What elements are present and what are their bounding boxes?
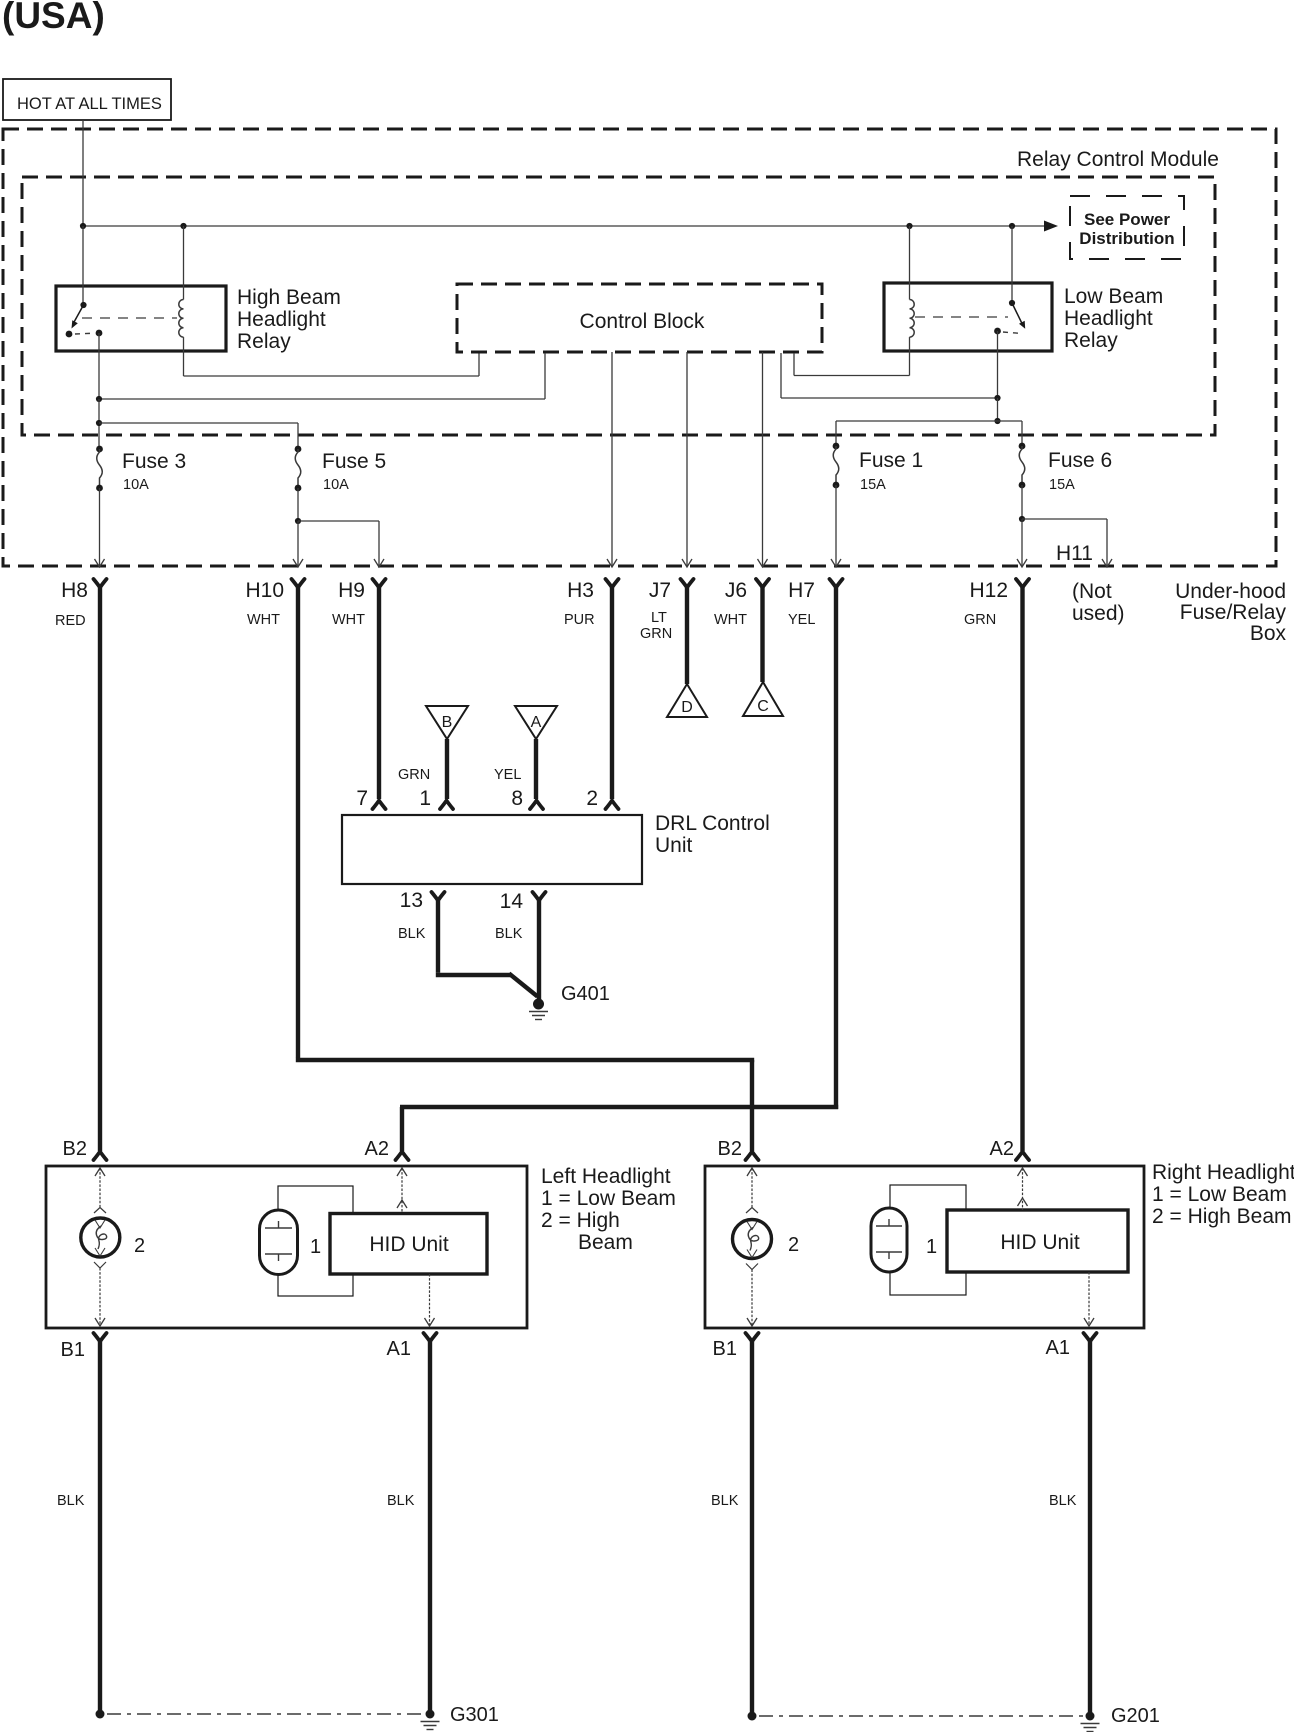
connector DRL pin1 terminal bbox=[440, 801, 453, 810]
arrow into J7 bbox=[682, 559, 692, 567]
svg-text:High Beam: High Beam bbox=[237, 286, 341, 309]
svg-text:WHT: WHT bbox=[714, 612, 747, 628]
connector D (triangle) bbox=[667, 684, 707, 717]
wire fuse3 to H8 bbox=[99, 488, 101, 566]
wire connector B to DRL pin 1 bbox=[445, 739, 449, 799]
wire control block to J7 bbox=[686, 352, 688, 566]
svg-text:Headlight: Headlight bbox=[237, 308, 326, 331]
svg-text:A2: A2 bbox=[365, 1138, 389, 1160]
connector H3 terminal bbox=[606, 579, 619, 588]
wire fuse5 down bbox=[297, 488, 299, 521]
svg-text:A: A bbox=[531, 714, 542, 731]
see power distribution box bbox=[1070, 196, 1184, 259]
arrow into H8 bbox=[95, 559, 105, 567]
wire power rail bbox=[83, 225, 1046, 227]
svg-text:D: D bbox=[681, 699, 693, 716]
connector left B2 terminal bbox=[94, 1152, 107, 1161]
wire fuse1 to H7 bbox=[835, 485, 837, 566]
fuse F1 15A bbox=[833, 443, 840, 450]
svg-text:Headlight: Headlight bbox=[1064, 307, 1153, 330]
ground G201 bbox=[1086, 1712, 1095, 1721]
svg-text:Left Headlight: Left Headlight bbox=[541, 1165, 671, 1188]
svg-text:(USA): (USA) bbox=[2, 0, 105, 36]
connector DRL pin7 terminal bbox=[373, 801, 386, 810]
wire rail to high-beam coil bbox=[183, 226, 185, 300]
wire rail to low-beam switch bbox=[1011, 226, 1013, 303]
svg-text:Fuse 6: Fuse 6 bbox=[1048, 449, 1112, 472]
wire left A2 to HID unit bbox=[397, 1168, 407, 1176]
node right B1 ground splice bbox=[748, 1712, 757, 1721]
HID unit right box bbox=[947, 1210, 1128, 1272]
svg-text:See Power: See Power bbox=[1084, 210, 1170, 229]
svg-text:PUR: PUR bbox=[564, 612, 595, 628]
connector left A2 terminal bbox=[396, 1152, 409, 1161]
fuse F3 10A bbox=[96, 446, 103, 453]
under-hood fuse/relay box (outer dashed) bbox=[3, 129, 1276, 566]
right bulb2 filament bbox=[747, 1222, 757, 1230]
svg-text:H12: H12 bbox=[969, 579, 1008, 602]
connector H9 terminal bbox=[373, 579, 386, 588]
wire rail to low-beam coil bbox=[909, 226, 911, 300]
connector H8 terminal bbox=[94, 579, 107, 588]
wire H12 GRN to right headlight A2 bbox=[1020, 585, 1024, 1151]
svg-text:8: 8 bbox=[511, 787, 523, 810]
wire G201 ground link bbox=[759, 1715, 1083, 1717]
svg-text:G201: G201 bbox=[1111, 1705, 1160, 1727]
svg-text:Beam: Beam bbox=[578, 1231, 633, 1254]
svg-text:Fuse 1: Fuse 1 bbox=[859, 449, 923, 472]
wire right A1 BLK to G201 bbox=[1088, 1339, 1092, 1714]
arrow into H12 bbox=[1017, 559, 1027, 567]
svg-text:LT: LT bbox=[651, 610, 667, 626]
fuse F5 10A bbox=[295, 446, 302, 453]
connector A (triangle) bbox=[515, 706, 557, 739]
svg-text:YEL: YEL bbox=[494, 767, 521, 783]
connector DRL pin13 terminal bbox=[432, 892, 445, 901]
HID unit left box bbox=[330, 1214, 487, 1275]
high-beam switch output contact bbox=[96, 330, 103, 337]
svg-text:H10: H10 bbox=[245, 579, 284, 602]
svg-text:(Not: (Not bbox=[1072, 580, 1112, 603]
connector DRL pin14 terminal bbox=[533, 892, 546, 901]
low beam bulb right (1) bbox=[871, 1208, 907, 1272]
left bulb2 filament bbox=[95, 1220, 105, 1228]
low-beam relay switch arm bbox=[1012, 303, 1022, 324]
ground G401 bbox=[533, 999, 544, 1010]
connector H12 terminal bbox=[1016, 579, 1029, 588]
fuse F6 15A bbox=[1019, 443, 1026, 450]
wire rail down to fuse 6 bbox=[1021, 421, 1023, 446]
svg-text:Fuse/Relay: Fuse/Relay bbox=[1180, 601, 1287, 624]
svg-text:Fuse 5: Fuse 5 bbox=[322, 450, 386, 473]
connector left A1 terminal bbox=[424, 1333, 437, 1342]
left headlight box bbox=[46, 1166, 527, 1328]
node low-beam switch wire junction bbox=[994, 395, 1000, 401]
right low-beam bulb bracket bbox=[890, 1185, 966, 1295]
svg-text:B: B bbox=[442, 714, 453, 731]
svg-text:G401: G401 bbox=[561, 983, 610, 1005]
wire fuse6 down bbox=[1021, 485, 1023, 519]
svg-text:H9: H9 bbox=[338, 579, 365, 602]
connector right A2 terminal bbox=[1016, 1152, 1029, 1161]
svg-text:7: 7 bbox=[356, 787, 368, 810]
connector DRL pin2 terminal bbox=[606, 801, 619, 810]
wire junction down to fuse3 branch bbox=[98, 399, 100, 449]
svg-text:1: 1 bbox=[926, 1236, 937, 1258]
svg-text:H11: H11 bbox=[1056, 542, 1093, 565]
wire junction to fuse rail bbox=[997, 398, 999, 421]
relay control module box (inner dashed) bbox=[22, 177, 1215, 435]
arrow to power distribution bbox=[1044, 221, 1058, 232]
wire DRL pin14 BLK to G401 bbox=[537, 898, 541, 1000]
wire right A2 to HID unit bbox=[1018, 1168, 1028, 1176]
svg-text:15A: 15A bbox=[1049, 477, 1075, 493]
svg-text:2: 2 bbox=[586, 787, 598, 810]
wire H7 YEL to left headlight A2 bbox=[834, 585, 838, 1109]
svg-text:Distribution: Distribution bbox=[1079, 229, 1174, 248]
node high-beam switch pivot bbox=[80, 302, 86, 308]
svg-text:14: 14 bbox=[500, 890, 524, 913]
wire H3 PUR to DRL pin 2 bbox=[610, 585, 614, 799]
svg-text:Fuse 3: Fuse 3 bbox=[122, 450, 186, 473]
low-beam relay actuation dashes bbox=[915, 316, 1008, 318]
ground G301 bbox=[426, 1710, 435, 1719]
wire connector A to DRL pin 8 bbox=[534, 739, 538, 799]
svg-text:Relay: Relay bbox=[237, 330, 291, 353]
node fuse6 output junction bbox=[1019, 516, 1025, 522]
svg-text:Low Beam: Low Beam bbox=[1064, 285, 1163, 308]
svg-text:Box: Box bbox=[1250, 622, 1287, 645]
wire control block to J6 bbox=[762, 352, 764, 566]
wire left B2 to high beam bulb bbox=[95, 1168, 105, 1176]
wire branch to H11 bbox=[1022, 518, 1107, 520]
high-beam relay coil L1 bbox=[179, 300, 184, 338]
svg-text:HID Unit: HID Unit bbox=[1000, 1231, 1080, 1254]
low beam bulb left (1) bbox=[260, 1210, 298, 1275]
svg-text:DRL Control: DRL Control bbox=[655, 812, 770, 835]
svg-text:BLK: BLK bbox=[57, 1493, 85, 1509]
wire H10 WHT to right headlight B2 bbox=[296, 585, 300, 1058]
connector J6 terminal bbox=[756, 579, 769, 588]
high-beam switch contact link dashes bbox=[75, 332, 94, 335]
svg-text:WHT: WHT bbox=[247, 612, 280, 628]
arrow into H11 bbox=[1102, 559, 1112, 567]
svg-text:2: 2 bbox=[134, 1235, 145, 1257]
wire right B2 to high beam bulb bbox=[747, 1168, 757, 1176]
svg-text:A1: A1 bbox=[1046, 1337, 1070, 1359]
svg-text:2: 2 bbox=[788, 1234, 799, 1256]
svg-text:Under-hood: Under-hood bbox=[1175, 580, 1286, 603]
svg-text:J6: J6 bbox=[725, 579, 747, 602]
low-beam switch output contact bbox=[994, 328, 1001, 335]
wire hot feed from HOT AT ALL TIMES bbox=[82, 120, 84, 226]
wire branch to H9 bbox=[298, 520, 379, 522]
svg-text:B1: B1 bbox=[713, 1338, 737, 1360]
svg-text:C: C bbox=[757, 698, 769, 715]
wire right bulb to B1 bbox=[746, 1264, 758, 1270]
node high-beam switch wire junction bbox=[96, 396, 102, 402]
svg-text:BLK: BLK bbox=[495, 926, 523, 942]
high-beam relay actuation dashes bbox=[82, 317, 177, 319]
wire low-beam switch to control block bbox=[997, 331, 999, 398]
relay high beam box bbox=[56, 286, 226, 351]
connector B (triangle) bbox=[426, 706, 468, 739]
wire left B1 BLK to G301 bbox=[98, 1339, 102, 1712]
svg-text:H8: H8 bbox=[61, 579, 88, 602]
svg-text:1: 1 bbox=[310, 1236, 321, 1258]
high beam bulb right (2) bbox=[733, 1220, 772, 1259]
high-beam relay switch arm bbox=[74, 305, 84, 323]
node rail-lowbeam-switch junction bbox=[1009, 223, 1015, 229]
wire low-beam coil to control block bbox=[909, 337, 911, 375]
low-beam relay coil L2 bbox=[910, 300, 915, 338]
svg-text:WHT: WHT bbox=[332, 612, 365, 628]
svg-text:RED: RED bbox=[55, 613, 86, 629]
svg-text:10A: 10A bbox=[323, 477, 349, 493]
wire left HID unit to A1 bbox=[429, 1274, 431, 1326]
svg-text:used): used) bbox=[1072, 602, 1125, 625]
wire G301 ground link bbox=[107, 1713, 423, 1715]
svg-text:13: 13 bbox=[400, 889, 423, 912]
wire rail down to fuse 1 bbox=[835, 421, 837, 446]
svg-text:BLK: BLK bbox=[387, 1493, 415, 1509]
wire control block to H3 bbox=[611, 352, 613, 566]
connector right B1 terminal bbox=[746, 1333, 759, 1342]
svg-text:HID Unit: HID Unit bbox=[369, 1233, 449, 1256]
wire J7 LT GRN to connector D bbox=[685, 585, 689, 684]
node low-beam switch pivot bbox=[1009, 300, 1015, 306]
control block box bbox=[457, 284, 822, 352]
svg-text:1 = Low Beam: 1 = Low Beam bbox=[541, 1187, 676, 1210]
node left B1 ground splice bbox=[96, 1710, 105, 1719]
node rail-highbeam-coil junction bbox=[180, 223, 186, 229]
DRL control unit box bbox=[342, 815, 642, 884]
svg-text:A1: A1 bbox=[387, 1338, 411, 1360]
arrow into H10 bbox=[293, 559, 303, 567]
svg-text:2 = High: 2 = High bbox=[541, 1209, 620, 1232]
wire high-beam coil to control block bbox=[183, 337, 185, 376]
svg-text:Unit: Unit bbox=[655, 834, 693, 857]
connector H10 terminal bbox=[292, 579, 305, 588]
wire right B1 BLK to G201 bbox=[750, 1339, 754, 1714]
svg-text:2 = High Beam: 2 = High Beam bbox=[1152, 1205, 1292, 1228]
svg-text:A2: A2 bbox=[990, 1138, 1014, 1160]
svg-text:BLK: BLK bbox=[1049, 1493, 1077, 1509]
svg-text:Relay: Relay bbox=[1064, 329, 1118, 352]
svg-text:Relay Control Module: Relay Control Module bbox=[1017, 148, 1219, 171]
svg-text:YEL: YEL bbox=[788, 612, 815, 628]
wire right HID unit to A1 bbox=[1088, 1272, 1090, 1326]
node rail-hot junction bbox=[80, 223, 86, 229]
svg-text:Control Block: Control Block bbox=[580, 310, 705, 333]
svg-text:GRN: GRN bbox=[640, 626, 672, 642]
wire DRL pin13 BLK to G401 bbox=[436, 898, 440, 973]
wire fuse1-fuse6 top rail bbox=[836, 420, 1022, 422]
wire left A1 BLK to G301 bbox=[428, 1339, 432, 1712]
svg-text:B1: B1 bbox=[61, 1339, 85, 1361]
wire high-beam switch to control block bbox=[98, 333, 100, 399]
svg-text:BLK: BLK bbox=[398, 926, 426, 942]
wire to H10 bbox=[297, 521, 299, 566]
wire branch to fuse 5 bbox=[99, 422, 298, 424]
svg-text:H7: H7 bbox=[788, 579, 815, 602]
connector DRL pin8 terminal bbox=[530, 801, 543, 810]
svg-text:15A: 15A bbox=[860, 477, 886, 493]
high-beam switch open contact bbox=[66, 331, 73, 338]
connector left B1 terminal bbox=[94, 1333, 107, 1342]
node fuse1-fuse6 rail junction bbox=[994, 418, 1000, 424]
svg-text:GRN: GRN bbox=[964, 612, 996, 628]
low-beam switch contact link dashes bbox=[1003, 332, 1022, 334]
svg-text:J7: J7 bbox=[649, 579, 671, 602]
svg-text:B2: B2 bbox=[63, 1138, 87, 1160]
connector H7 terminal bbox=[830, 579, 843, 588]
wire rail to high-beam switch bbox=[82, 226, 84, 305]
relay low beam box bbox=[884, 283, 1052, 351]
wire J6 WHT to connector C bbox=[760, 585, 764, 682]
arrow into H3 bbox=[607, 559, 617, 567]
right headlight box bbox=[705, 1166, 1144, 1328]
svg-text:1 = Low Beam: 1 = Low Beam bbox=[1152, 1183, 1287, 1206]
arrow into H7 bbox=[831, 559, 841, 567]
connector J7 terminal bbox=[681, 579, 694, 588]
svg-text:Right Headlight: Right Headlight bbox=[1152, 1161, 1294, 1184]
connector right B2 terminal bbox=[746, 1152, 759, 1161]
svg-text:H3: H3 bbox=[567, 579, 594, 602]
svg-text:G301: G301 bbox=[450, 1704, 499, 1726]
svg-text:GRN: GRN bbox=[398, 767, 430, 783]
wire left bulb to B1 bbox=[94, 1262, 106, 1268]
connector right A1 terminal bbox=[1084, 1333, 1097, 1342]
wire H8 RED to left headlight B2 bbox=[98, 585, 102, 1151]
svg-text:1: 1 bbox=[419, 787, 431, 810]
svg-text:10A: 10A bbox=[123, 477, 149, 493]
connector C (triangle) bbox=[743, 682, 783, 716]
wire H9 WHT to DRL pin 7 bbox=[377, 585, 381, 799]
node rail-lowbeam-coil junction bbox=[906, 223, 912, 229]
wire to H12 bbox=[1021, 519, 1023, 566]
high beam bulb left (2) bbox=[81, 1218, 120, 1257]
node fuse5 branch junction bbox=[96, 420, 102, 426]
svg-text:BLK: BLK bbox=[711, 1493, 739, 1509]
arrow into J6 bbox=[758, 559, 768, 567]
svg-text:B2: B2 bbox=[718, 1138, 742, 1160]
svg-text:HOT AT ALL TIMES: HOT AT ALL TIMES bbox=[17, 95, 162, 113]
node fuse5 output junction bbox=[295, 518, 301, 524]
left low-beam bulb bracket bbox=[278, 1186, 353, 1296]
label HOT AT ALL TIMES box bbox=[3, 79, 171, 120]
arrow into H9 bbox=[374, 559, 384, 567]
